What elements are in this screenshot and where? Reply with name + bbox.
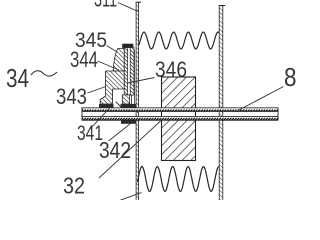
horizontal plate xyxy=(82,108,278,121)
svg-text:342: 342 xyxy=(99,137,131,163)
bracket rod left bar xyxy=(124,48,127,96)
leader 32 xyxy=(99,121,161,178)
column right wall xyxy=(219,6,225,201)
leader 346 xyxy=(128,78,155,84)
bracket left foot xyxy=(99,104,114,108)
bracket sleeve line a xyxy=(131,95,133,104)
bracket main block xyxy=(100,71,124,104)
leader line at bottom edge xyxy=(120,193,142,201)
squiggle 34 xyxy=(31,71,57,76)
leader 344 xyxy=(98,61,120,70)
bevel line at right foot xyxy=(116,102,122,108)
nut below plate xyxy=(121,120,137,123)
bracket sleeve line b xyxy=(134,50,136,104)
bracket right foot xyxy=(121,104,137,108)
bracket cap xyxy=(123,44,134,48)
bottom spring xyxy=(138,167,220,192)
svg-text:311: 311 xyxy=(94,0,117,12)
bracket wedge xyxy=(113,49,124,72)
leader 342 xyxy=(109,121,135,141)
center hatched block xyxy=(162,77,196,161)
svg-text:344: 344 xyxy=(70,47,98,72)
svg-text:8: 8 xyxy=(284,62,297,92)
column left wall xyxy=(136,2,141,200)
leader 311 xyxy=(118,3,138,12)
leader 341 xyxy=(90,106,112,130)
leader 345 xyxy=(107,46,118,53)
leader 343 xyxy=(88,87,107,94)
svg-text:32: 32 xyxy=(63,173,85,199)
bracket rod right bar xyxy=(130,48,134,96)
svg-text:34: 34 xyxy=(6,63,29,93)
leader 8 xyxy=(238,87,284,111)
svg-text:346: 346 xyxy=(155,57,187,82)
top spring xyxy=(139,32,219,49)
bracket lower-right plug xyxy=(122,95,129,104)
svg-text:343: 343 xyxy=(56,84,87,109)
